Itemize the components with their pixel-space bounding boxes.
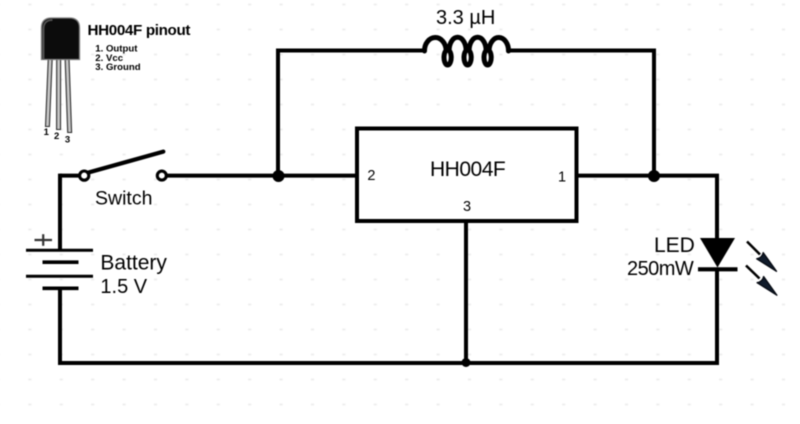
- svg-text:HH004F pinout: HH004F pinout: [88, 22, 191, 39]
- svg-text:3: 3: [463, 199, 471, 215]
- svg-text:3.3 µH: 3.3 µH: [436, 7, 495, 29]
- svg-text:2: 2: [54, 131, 59, 142]
- svg-text:1.5 V: 1.5 V: [100, 276, 147, 298]
- svg-text:LED: LED: [654, 234, 695, 257]
- svg-text:3. Ground: 3. Ground: [95, 62, 140, 73]
- svg-text:3: 3: [65, 135, 70, 146]
- svg-text:1: 1: [44, 127, 50, 138]
- svg-text:250mW: 250mW: [627, 258, 694, 280]
- svg-text:HH004F: HH004F: [430, 158, 505, 181]
- svg-text:1: 1: [558, 169, 566, 185]
- svg-text:2: 2: [367, 168, 375, 184]
- svg-text:Battery: Battery: [100, 251, 167, 274]
- svg-text:Switch: Switch: [95, 187, 152, 209]
